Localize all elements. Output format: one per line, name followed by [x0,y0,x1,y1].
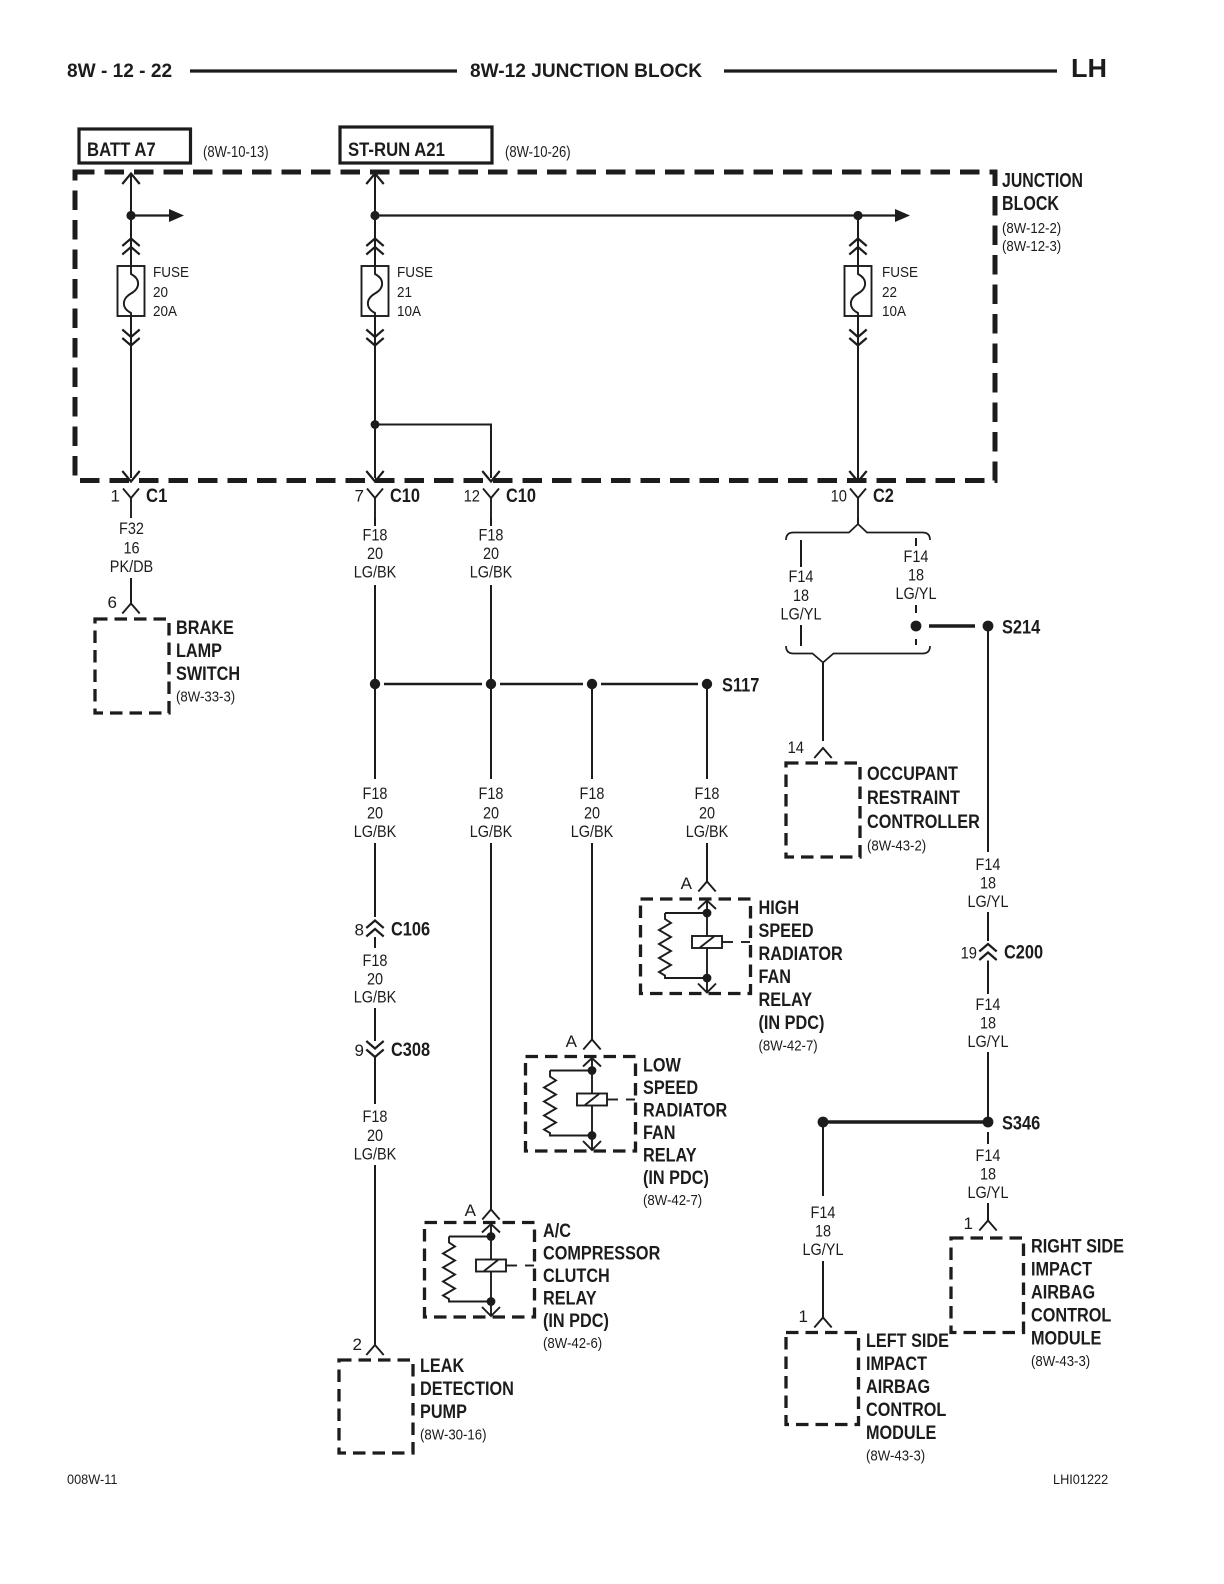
svg-text:8W - 12 - 22: 8W - 12 - 22 [67,60,172,82]
svg-text:20: 20 [367,804,383,823]
svg-text:ST-RUN A21: ST-RUN A21 [348,140,445,161]
wire to high speed radiator fan relay [706,843,708,882]
svg-text:F18: F18 [363,951,388,970]
svg-text:(8W-42-6): (8W-42-6) [543,1335,602,1352]
svg-text:AIRBAG: AIRBAG [1031,1283,1095,1304]
wire C10 pin 12 lead [490,518,492,526]
svg-text:2: 2 [353,1335,362,1354]
svg-text:SWITCH: SWITCH [176,664,240,685]
svg-text:LH: LH [1071,53,1107,83]
node fuse 21 output branch [371,420,380,429]
svg-text:20: 20 [153,285,168,301]
svg-text:F18: F18 [695,784,720,803]
connector C10 pin 12 [483,489,499,519]
wire C2 pin 10 lead [857,518,859,524]
svg-text:LG/YL: LG/YL [968,1183,1009,1202]
wire C200 to S346 [987,1052,989,1122]
svg-text:MODULE: MODULE [866,1423,936,1444]
svg-text:LAMP: LAMP [176,641,222,662]
fuse 21 chevron down [366,330,383,346]
svg-text:PK/DB: PK/DB [110,557,153,576]
S214 junction left [911,621,922,632]
wire BATT A7 feed lower [130,316,132,478]
svg-text:LG/YL: LG/YL [968,1032,1009,1051]
svg-text:LHI01222: LHI01222 [1053,1471,1108,1487]
svg-text:FUSE: FUSE [397,265,433,281]
svg-text:21: 21 [397,285,412,301]
svg-text:RELAY: RELAY [759,990,813,1011]
svg-text:FUSE: FUSE [153,265,189,281]
fuse 22 chevron up [849,239,866,255]
wire right airbag stub [987,1203,989,1221]
arrow into ST-RUN A21 [366,174,383,185]
svg-text:DETECTION: DETECTION [420,1379,514,1400]
svg-text:RIGHT SIDE: RIGHT SIDE [1031,1237,1124,1258]
svg-text:C1: C1 [146,486,168,507]
splice S346 link [823,1120,988,1123]
bus wire ST-RUN to fuse 22 [375,214,858,216]
S117 junction 1 [370,679,380,689]
svg-text:18: 18 [980,1165,996,1184]
svg-text:LG/YL: LG/YL [968,892,1009,911]
node ST-RUN A21 box [340,127,492,163]
svg-text:F18: F18 [363,1107,388,1126]
svg-text:CONTROL: CONTROL [1031,1306,1112,1327]
svg-text:F14: F14 [789,567,814,586]
occupant restraint controller box [786,763,860,857]
relay low speed radiator fan bottom terminal arrow [583,1141,601,1150]
node BATT feed junction [126,211,135,220]
relay high speed radiator fan top junction [703,909,712,918]
relay a/c compressor clutch box [425,1223,535,1318]
svg-text:F32: F32 [119,519,144,538]
svg-text:(IN PDC): (IN PDC) [759,1013,825,1034]
fuse 20 chevron up [122,239,139,255]
node BATT A7 box [79,129,191,163]
brace splitting C2 output [786,524,930,540]
svg-text:F14: F14 [811,1203,836,1222]
relay low speed radiator fan bottom junction [588,1131,597,1140]
S346 junction left [818,1117,829,1128]
brake lamp switch terminal 6 [122,604,139,614]
fuse 21 [362,266,389,316]
svg-text:008W-11: 008W-11 [67,1471,118,1487]
svg-text:12: 12 [464,487,480,506]
relay high speed radiator fan box [641,899,751,994]
S117 junction 3 [587,679,597,689]
svg-text:SPEED: SPEED [759,921,814,942]
arrow at C10 pin 7 [366,471,383,482]
svg-text:F14: F14 [976,995,1001,1014]
fuse 20 [118,266,145,316]
fuse 20 chevron down [122,330,139,346]
wire left split branch lower [800,625,802,646]
wire S117 branch x592 upper [591,689,593,779]
wire S214 to C200 [987,631,989,852]
wire S346 to left airbag module upper [822,1122,824,1196]
wire below C106 [374,937,376,948]
svg-text:A: A [566,1032,578,1051]
wire S346 to left airbag module lower [822,1261,824,1318]
wire ST-RUN A21 feed lower [374,316,376,478]
splice S214 [983,621,994,632]
wire right split branch (dashed) [915,538,917,546]
wire left split branch [800,540,802,567]
wire ST-RUN A21 feed upper [374,174,376,266]
svg-text:(8W-33-3): (8W-33-3) [176,689,235,706]
arrow at C1 pin 1 [122,471,139,482]
connector C200 symbol [979,944,996,960]
wire fuse 22 feed upper [857,216,859,267]
svg-text:F18: F18 [479,526,504,545]
fuse 22 [845,266,872,316]
svg-text:F18: F18 [479,784,504,803]
svg-text:F14: F14 [976,855,1001,874]
wire S117 branch x707 upper [706,689,708,779]
arrow at C10 pin 12 [482,471,499,482]
wire C10 pin 7 lead [374,518,376,526]
S117 junction 4 [702,679,712,689]
svg-text:LOW: LOW [643,1056,681,1077]
svg-text:RELAY: RELAY [543,1289,597,1310]
relay high speed radiator fan bottom junction [703,974,712,983]
svg-text:FUSE: FUSE [882,265,918,281]
svg-text:22: 22 [882,285,897,301]
left side impact airbag control module box [786,1333,859,1425]
svg-text:(IN PDC): (IN PDC) [543,1311,609,1332]
svg-text:A: A [465,1201,477,1220]
svg-text:1: 1 [799,1307,808,1326]
svg-text:MODULE: MODULE [1031,1329,1101,1350]
splice S346 [983,1117,994,1128]
svg-text:LG/BK: LG/BK [686,822,729,841]
node fuse 22 tap [853,211,862,220]
svg-text:AIRBAG: AIRBAG [866,1377,930,1398]
svg-text:(8W-30-16): (8W-30-16) [420,1427,487,1444]
svg-text:LEFT SIDE: LEFT SIDE [866,1331,949,1352]
svg-text:RADIATOR: RADIATOR [643,1101,727,1122]
svg-text:LG/BK: LG/BK [354,1145,397,1164]
high speed relay terminal A [698,882,715,892]
relay a/c compressor clutch coil [476,1260,506,1272]
wire BATT A7 feed upper [130,174,132,266]
svg-text:F18: F18 [363,784,388,803]
header rule left [190,69,457,72]
relay a/c compressor clutch bottom junction [487,1297,496,1306]
svg-text:A: A [681,874,693,893]
svg-text:F18: F18 [580,784,605,803]
relay low speed radiator fan coil [577,1094,607,1106]
svg-text:LG/YL: LG/YL [803,1240,844,1259]
svg-text:16: 16 [123,539,139,558]
svg-text:(8W-12-3): (8W-12-3) [1002,238,1061,255]
svg-text:COMPRESSOR: COMPRESSOR [543,1244,661,1265]
right side impact airbag control module box [951,1238,1024,1333]
wire to low speed radiator fan relay [591,843,593,1040]
wire right split dash 3 [915,639,917,645]
svg-text:C10: C10 [506,486,536,507]
fuse 22 chevron down [849,330,866,346]
svg-text:6: 6 [108,593,117,612]
svg-text:10A: 10A [882,304,906,320]
relay low speed radiator fan internal terminal arrow [583,1058,601,1067]
wire to A/C compressor clutch relay [490,843,492,1210]
wire S117 branch x375 upper [374,689,376,779]
svg-text:RADIATOR: RADIATOR [759,944,843,965]
svg-text:RELAY: RELAY [643,1146,697,1167]
svg-text:C10: C10 [390,486,420,507]
right airbag module terminal 1 [979,1221,996,1231]
svg-text:18: 18 [980,1014,996,1033]
connector C106 symbol [366,921,383,937]
svg-text:A/C: A/C [543,1221,571,1242]
svg-text:IMPACT: IMPACT [1031,1260,1092,1281]
wire to S117 col1 [374,585,376,679]
relay a/c compressor clutch top junction [487,1232,496,1241]
svg-text:LG/YL: LG/YL [781,605,822,624]
svg-text:10: 10 [831,487,847,506]
relay high speed radiator fan internal wire [706,901,708,993]
relay a/c compressor clutch bottom terminal arrow [482,1307,500,1316]
svg-text:20: 20 [367,544,383,563]
relay a/c compressor clutch internal wire [490,1224,492,1316]
svg-text:7: 7 [355,487,364,506]
relay high speed radiator fan coil [692,936,722,948]
svg-text:LG/BK: LG/BK [470,822,513,841]
svg-text:LG/BK: LG/BK [354,563,397,582]
relay high speed radiator fan internal terminal arrow [698,901,716,910]
svg-text:(8W-10-26): (8W-10-26) [505,144,571,161]
svg-text:20: 20 [699,804,715,823]
svg-text:1: 1 [964,1214,973,1233]
svg-text:PUMP: PUMP [420,1402,467,1423]
svg-text:BRAKE: BRAKE [176,618,234,639]
svg-text:18: 18 [908,566,924,585]
wire S346 to right airbag module (dashed) [987,1132,989,1144]
svg-text:LG/YL: LG/YL [896,584,937,603]
wire branch to C10 pin 12 [375,425,491,479]
leak detection pump box [339,1360,413,1453]
svg-text:RESTRAINT: RESTRAINT [867,788,960,809]
arrow bus continues right [858,214,896,216]
relay high speed radiator fan resistor [659,913,707,978]
svg-text:20: 20 [367,970,383,989]
svg-text:C2: C2 [873,486,894,507]
svg-text:1: 1 [111,487,120,506]
wire to C106 [374,843,376,917]
svg-text:19: 19 [961,944,977,963]
svg-text:CONTROLLER: CONTROLLER [867,812,980,833]
svg-text:BLOCK: BLOCK [1002,193,1059,215]
svg-text:20: 20 [483,544,499,563]
relay low speed radiator fan internal wire [591,1058,593,1150]
connector C1 pin 1 [123,489,139,519]
wire to brake lamp switch [130,578,132,604]
wire right split dash 2 [915,605,917,613]
leak detection pump terminal 2 [366,1345,383,1355]
wire fuse 22 feed lower [857,316,859,478]
wire above C200 [987,912,989,941]
svg-text:(8W-43-2): (8W-43-2) [867,838,926,855]
S117 junction 2 [486,679,496,689]
splice S117 bus [384,683,482,686]
svg-text:JUNCTION: JUNCTION [1002,170,1083,192]
low speed relay terminal A [583,1040,600,1050]
relay low speed radiator fan box [526,1057,636,1152]
left airbag module terminal 1 [814,1318,831,1328]
svg-text:LG/BK: LG/BK [354,822,397,841]
svg-text:LG/BK: LG/BK [571,822,614,841]
svg-text:(8W-43-3): (8W-43-3) [866,1448,925,1465]
svg-text:FAN: FAN [759,967,792,988]
svg-text:IMPACT: IMPACT [866,1354,927,1375]
brake lamp switch box [95,619,169,713]
svg-text:OCCUPANT: OCCUPANT [867,764,958,785]
fuse 21 chevron up [366,239,383,255]
svg-text:C106: C106 [391,920,430,941]
wire below C200 [987,961,989,995]
relay low speed radiator fan resistor [544,1071,592,1136]
svg-text:S117: S117 [722,675,759,697]
wire to occupant restraint controller [822,663,824,742]
svg-text:18: 18 [980,874,996,893]
svg-text:18: 18 [815,1222,831,1241]
svg-text:14: 14 [788,738,804,757]
svg-text:LEAK: LEAK [420,1356,464,1377]
svg-text:LG/BK: LG/BK [354,988,397,1007]
svg-text:(8W-42-7): (8W-42-7) [759,1038,818,1055]
svg-text:CLUTCH: CLUTCH [543,1266,610,1287]
connector C10 pin 7 [367,489,383,519]
svg-text:8: 8 [355,921,364,940]
wire above C308 [374,1008,376,1041]
arrow branch to right (BATT) [131,214,170,216]
relay a/c compressor clutch resistor [443,1237,491,1302]
svg-text:20: 20 [483,804,499,823]
svg-text:LG/BK: LG/BK [470,563,513,582]
ORC terminal 14 [814,748,831,758]
connector C2 pin 10 [850,489,866,519]
svg-text:SPEED: SPEED [643,1078,698,1099]
svg-text:F18: F18 [363,526,388,545]
connector C308 symbol [366,1041,383,1057]
splice S214 link [929,624,975,627]
svg-text:10A: 10A [397,304,421,320]
svg-text:S214: S214 [1002,617,1040,639]
svg-text:HIGH: HIGH [759,898,800,919]
svg-text:(8W-12-2): (8W-12-2) [1002,220,1061,237]
svg-text:9: 9 [355,1041,364,1060]
arrow into BATT A7 [122,174,139,185]
svg-text:8W-12 JUNCTION BLOCK: 8W-12 JUNCTION BLOCK [470,60,702,82]
wire to leak detection pump [374,1165,376,1345]
wire below C308 [374,1057,376,1104]
svg-text:BATT A7: BATT A7 [87,140,156,161]
svg-text:F14: F14 [904,547,929,566]
arrow at C2 pin 10 [849,471,866,482]
relay high speed radiator fan bottom terminal arrow [698,984,716,993]
svg-text:20: 20 [367,1126,383,1145]
relay low speed radiator fan top junction [588,1066,597,1075]
svg-text:FAN: FAN [643,1123,676,1144]
junction block outline [75,172,995,481]
svg-text:(8W-42-7): (8W-42-7) [643,1192,702,1209]
svg-text:20A: 20A [153,304,177,320]
svg-text:C200: C200 [1004,943,1043,964]
svg-text:S346: S346 [1002,1113,1040,1135]
svg-text:20: 20 [584,804,600,823]
svg-text:(8W-10-13): (8W-10-13) [203,144,269,161]
svg-text:CONTROL: CONTROL [866,1400,947,1421]
wire S117 branch x491 upper [490,689,492,779]
node ST-RUN feed junction [370,211,379,220]
svg-text:(8W-43-3): (8W-43-3) [1031,1353,1090,1370]
a/c relay terminal A [482,1210,499,1220]
wire to S117 col2 [490,585,492,679]
header rule right [724,69,1057,72]
svg-text:F14: F14 [976,1146,1001,1165]
relay a/c compressor clutch internal terminal arrow [482,1224,500,1233]
svg-text:18: 18 [793,586,809,605]
brace merging to ORC [786,646,930,663]
svg-text:(IN PDC): (IN PDC) [643,1168,709,1189]
svg-text:C308: C308 [391,1040,430,1061]
